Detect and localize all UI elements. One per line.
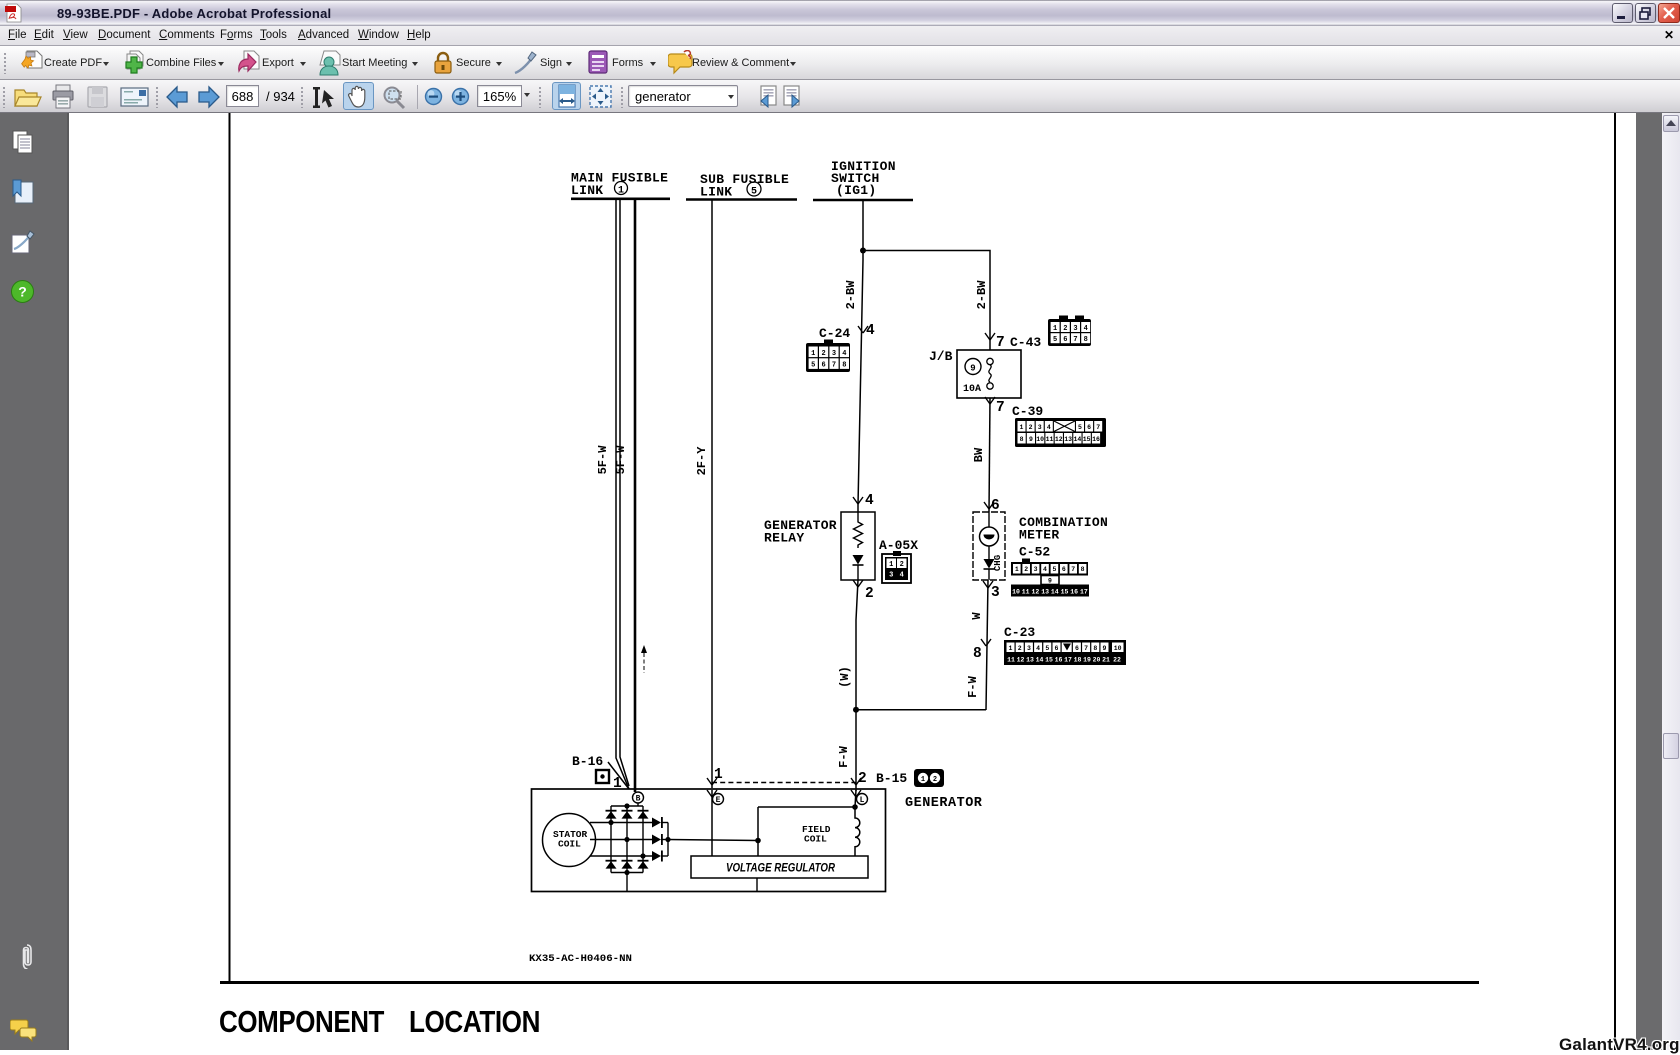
- svg-text:11: 11: [1022, 589, 1030, 596]
- bridge diodes bottom row: [606, 860, 649, 869]
- node ignition branch junction: [860, 248, 866, 254]
- diode inside relay: [853, 555, 864, 565]
- svg-text:17: 17: [1080, 589, 1088, 596]
- pin marker C-52 pin3: [983, 581, 993, 588]
- svg-text:3: 3: [832, 350, 836, 358]
- svg-text:5F-W: 5F-W: [614, 445, 628, 475]
- terminal L: [857, 794, 868, 806]
- svg-text:C-43: C-43: [1010, 335, 1041, 350]
- svg-text:RELAY: RELAY: [764, 531, 805, 546]
- svg-text:9: 9: [1029, 436, 1033, 443]
- menu bar: [0, 26, 1680, 46]
- svg-text:B-15: B-15: [876, 771, 907, 786]
- svg-text:C-24: C-24: [819, 326, 850, 341]
- svg-text:15: 15: [1061, 589, 1069, 596]
- svg-text:9: 9: [970, 364, 975, 374]
- svg-text:4: 4: [1084, 325, 1088, 333]
- svg-text:1: 1: [618, 186, 624, 197]
- svg-text:8: 8: [1084, 336, 1088, 344]
- svg-text:3: 3: [1073, 325, 1077, 333]
- svg-text:6: 6: [1055, 645, 1059, 652]
- wire 2F-Y from sub fusible link: [711, 200, 713, 788]
- connector C-39 pin block: [1015, 418, 1106, 447]
- svg-text:KX35-AC-H0406-NN: KX35-AC-H0406-NN: [529, 953, 632, 965]
- svg-text:(IG1): (IG1): [836, 183, 877, 198]
- svg-text:4: 4: [842, 350, 846, 358]
- svg-text:C-52: C-52: [1019, 545, 1050, 560]
- wire 5F-W (b) parallel conductor: [620, 200, 629, 786]
- svg-text:8: 8: [1020, 436, 1024, 443]
- svg-text:4: 4: [1036, 645, 1040, 652]
- wire 2F-Y inside generator to voltage regulator: [711, 790, 713, 856]
- svg-text:8: 8: [1081, 566, 1085, 573]
- bridge junction nodes: [608, 803, 670, 875]
- svg-text:LINK: LINK: [571, 183, 603, 198]
- svg-text:10A: 10A: [963, 384, 981, 395]
- svg-text:F-W: F-W: [966, 675, 980, 697]
- connector C-52 pin 9 cell: [1041, 576, 1059, 585]
- svg-text:18: 18: [1074, 657, 1082, 664]
- pin marker relay pin4: [853, 497, 863, 504]
- svg-text:7: 7: [832, 362, 836, 370]
- field coil winding: [855, 807, 860, 856]
- fuse 9 symbol: [965, 359, 981, 375]
- svg-text:13: 13: [1064, 436, 1072, 443]
- svg-text:LINK: LINK: [700, 185, 732, 200]
- svg-text:(W): (W): [838, 666, 852, 688]
- connector B-16 icon: [596, 770, 609, 783]
- svg-text:2F-Y: 2F-Y: [695, 446, 709, 476]
- svg-text:16: 16: [1092, 436, 1100, 443]
- svg-text:12: 12: [1031, 589, 1039, 596]
- pin marker C-43 pin7: [985, 333, 995, 340]
- node F-W junction: [853, 707, 859, 713]
- svg-text:L: L: [860, 796, 865, 805]
- pin marker C-24 pin4: [858, 326, 868, 333]
- power feed IGNITION SWITCH bus bar: [813, 199, 913, 202]
- svg-text:2: 2: [1024, 566, 1028, 573]
- svg-text:7: 7: [1071, 566, 1075, 573]
- toolbar row 2: [0, 80, 1680, 113]
- svg-text:2: 2: [1018, 645, 1022, 652]
- svg-text:5: 5: [811, 362, 815, 370]
- frame right border: [1614, 113, 1616, 1050]
- rectifier bridge: [590, 803, 758, 891]
- svg-text:A-05X: A-05X: [879, 538, 918, 553]
- combination meter box: [973, 512, 1005, 580]
- svg-text:1: 1: [1009, 645, 1013, 652]
- connector C-23 pin block: [1004, 640, 1126, 665]
- svg-text:1: 1: [921, 776, 925, 784]
- charge lamp symbol: [980, 527, 999, 546]
- svg-text:COIL: COIL: [804, 834, 827, 845]
- svg-text:6: 6: [1087, 424, 1091, 431]
- svg-text:15: 15: [1083, 436, 1091, 443]
- node field coil left: [755, 838, 761, 844]
- combination meter COMBINATION METER label: [1019, 515, 1108, 543]
- svg-text:J/B: J/B: [929, 349, 953, 364]
- fuse element: [987, 358, 993, 364]
- pin marker generator L terminal: [851, 790, 861, 797]
- ground stub below bridge: [626, 873, 628, 892]
- svg-text:9: 9: [1103, 645, 1107, 652]
- top bus: [611, 805, 643, 807]
- svg-text:2: 2: [1063, 325, 1067, 333]
- wire F-W junction down to generator L terminal: [855, 710, 857, 791]
- frame bottom border: [220, 981, 1479, 984]
- wire BW J/B to combination meter: [989, 398, 990, 512]
- svg-text:2: 2: [933, 776, 937, 784]
- voltage regulator box: [691, 856, 868, 878]
- svg-text:5: 5: [1078, 424, 1082, 431]
- junction block J/B: [929, 349, 1021, 398]
- connector C-52 pin block row 2: [1011, 585, 1089, 597]
- svg-text:E: E: [716, 796, 721, 805]
- svg-text:5: 5: [751, 187, 757, 198]
- svg-text:20: 20: [1093, 657, 1101, 664]
- toolbar row 1: [0, 46, 1680, 80]
- connector C-43 pin block: [1048, 316, 1091, 347]
- svg-text:3: 3: [1034, 566, 1038, 573]
- svg-text:COMPONENT: COMPONENT: [219, 1004, 384, 1039]
- svg-text:1: 1: [1020, 424, 1024, 431]
- svg-text:C-39: C-39: [1012, 404, 1043, 419]
- connector pass-through markers (arrowheads): [707, 326, 995, 797]
- svg-text:?: ?: [18, 284, 27, 300]
- svg-text:4: 4: [865, 493, 874, 509]
- label MAIN FUSIBLE LINK: [571, 171, 668, 199]
- svg-text:8: 8: [842, 362, 846, 370]
- svg-text:6: 6: [1063, 336, 1067, 344]
- svg-text:2: 2: [1029, 424, 1033, 431]
- wire branch to J/B: [863, 251, 990, 351]
- svg-text:CHG: CHG: [993, 555, 1003, 571]
- svg-text:5: 5: [1052, 566, 1056, 573]
- svg-text:7: 7: [1084, 645, 1088, 652]
- svg-text:4: 4: [1047, 424, 1051, 431]
- svg-text:16: 16: [1070, 589, 1078, 596]
- relay A-05X (generator relay) body: [841, 512, 875, 580]
- svg-text:8: 8: [1093, 645, 1097, 652]
- connector C-52 pin block row 1: [1011, 559, 1088, 576]
- svg-text:3: 3: [1038, 424, 1042, 431]
- svg-text:9: 9: [1048, 578, 1052, 585]
- svg-text:11: 11: [1046, 436, 1054, 443]
- power feed SUB FUSIBLE LINK bus bar: [686, 198, 797, 201]
- svg-text:5: 5: [1053, 336, 1057, 344]
- svg-text:5: 5: [1045, 645, 1049, 652]
- phase line 1: [590, 822, 652, 824]
- svg-text:6: 6: [1062, 566, 1066, 573]
- svg-text:17: 17: [1064, 657, 1072, 664]
- svg-text:21: 21: [1102, 657, 1110, 664]
- title bar: [0, 0, 1680, 26]
- svg-text:1: 1: [1015, 566, 1019, 573]
- svg-text:2: 2: [821, 350, 825, 358]
- bridge diodes top row: [606, 810, 649, 819]
- svg-text:4: 4: [866, 323, 875, 339]
- relay GENERATOR RELAY label: [764, 518, 837, 546]
- svg-text:6: 6: [1075, 645, 1079, 652]
- connector C-24 pin block: [806, 340, 850, 373]
- dashed harness line B-15 pin1 to pin2: [712, 782, 856, 784]
- diode inside meter: [984, 559, 995, 569]
- svg-text:10: 10: [1012, 589, 1020, 596]
- pin marker C-39 pin7: [985, 397, 995, 404]
- stub below voltage regulator: [756, 878, 758, 891]
- svg-text:7: 7: [996, 400, 1005, 416]
- pin marker C-52 pin6: [984, 502, 994, 509]
- svg-text:5F-W: 5F-W: [596, 445, 610, 475]
- phase line 3: [590, 855, 652, 857]
- power feed MAIN FUSIBLE LINK bus bar: [571, 198, 670, 201]
- svg-text:7: 7: [1096, 424, 1100, 431]
- svg-text:7: 7: [1073, 336, 1077, 344]
- svg-text:METER: METER: [1019, 528, 1060, 543]
- svg-text:3: 3: [889, 571, 893, 579]
- terminal B: [633, 792, 644, 804]
- connector B-15 icon: [914, 769, 944, 787]
- svg-text:2: 2: [858, 771, 867, 787]
- svg-text:14: 14: [1036, 657, 1044, 664]
- wire L terminal to field coil junction: [855, 790, 856, 807]
- svg-text:16: 16: [1055, 657, 1063, 664]
- phase line 2 / output to field: [590, 839, 652, 841]
- label IGNITION SWITCH (IG1): [831, 159, 896, 198]
- svg-text:1: 1: [811, 350, 815, 358]
- svg-text:3: 3: [991, 585, 1000, 601]
- svg-text:2: 2: [900, 561, 904, 569]
- stator coil circle: [543, 814, 596, 867]
- svg-text:6: 6: [821, 362, 825, 370]
- node field coil right: [852, 804, 858, 810]
- svg-text:2: 2: [865, 586, 874, 602]
- legs: [610, 806, 612, 873]
- wire W meter pin3 down to F-W junction: [986, 580, 988, 710]
- label SUB FUSIBLE LINK: [700, 172, 789, 200]
- generator outline box: [532, 789, 886, 892]
- svg-text:4: 4: [900, 571, 904, 579]
- pin marker B-15 pin1 upper: [707, 778, 717, 785]
- svg-text:W: W: [970, 612, 984, 620]
- svg-text:12: 12: [1017, 657, 1025, 664]
- pin marker B-15 pin2 upper: [851, 778, 861, 785]
- svg-text:19: 19: [1083, 657, 1091, 664]
- svg-text:2-BW: 2-BW: [975, 280, 989, 310]
- connector A-05X pin block: [882, 551, 911, 583]
- svg-text:2-BW: 2-BW: [844, 280, 858, 310]
- wire 5F-W (a) from main fusible link: [616, 200, 629, 789]
- svg-text:10: 10: [1114, 645, 1122, 652]
- svg-text:3: 3: [1027, 645, 1031, 652]
- wire F-W horizontal run: [856, 709, 986, 711]
- frame left border: [229, 113, 231, 982]
- wire 5F-W (thick) to generator B terminal: [634, 200, 637, 792]
- wire B-16 leader diagonal: [608, 762, 629, 789]
- B terminal stub: [637, 803, 639, 806]
- wire 2-BW from ignition switch: [858, 201, 863, 512]
- terminal E: [713, 794, 724, 806]
- svg-text:BW: BW: [972, 447, 986, 462]
- svg-text:F-W: F-W: [837, 745, 851, 767]
- svg-text:COIL: COIL: [558, 839, 581, 850]
- small direction arrow mid page: [641, 645, 647, 673]
- output diodes (three, pointing right): [652, 817, 663, 862]
- svg-text:GENERATOR: GENERATOR: [905, 796, 983, 811]
- pin marker relay pin2: [853, 580, 863, 587]
- svg-text:14: 14: [1073, 436, 1081, 443]
- svg-text:1: 1: [889, 561, 893, 569]
- svg-text:8: 8: [973, 646, 982, 662]
- svg-text:13: 13: [1026, 657, 1034, 664]
- output bus vertical: [667, 823, 669, 857]
- svg-text:1: 1: [1053, 325, 1057, 333]
- svg-text:B: B: [636, 795, 641, 804]
- svg-text:LOCATION: LOCATION: [409, 1004, 540, 1039]
- bottom bus: [611, 872, 643, 874]
- svg-text:10: 10: [1036, 436, 1044, 443]
- svg-text:13: 13: [1041, 589, 1049, 596]
- symbol circled 1 fusible link number: [615, 182, 628, 197]
- svg-text:C-23: C-23: [1004, 625, 1035, 640]
- svg-text:1: 1: [714, 767, 723, 783]
- svg-text:VOLTAGE REGULATOR: VOLTAGE REGULATOR: [726, 861, 835, 875]
- pin marker generator E terminal: [707, 790, 717, 797]
- wire (W) relay pin2 down to junction: [856, 580, 858, 710]
- svg-text:11: 11: [1007, 657, 1015, 664]
- field coil box: [758, 807, 860, 856]
- svg-text:22: 22: [1113, 657, 1121, 664]
- svg-text:7: 7: [996, 335, 1005, 351]
- svg-text:B-16: B-16: [572, 754, 603, 769]
- svg-text:14: 14: [1051, 589, 1059, 596]
- resistor element inside relay: [854, 512, 863, 548]
- svg-text:4: 4: [1043, 566, 1047, 573]
- symbol circled 5 fusible link number: [747, 182, 761, 198]
- pin marker C-23 pin8: [981, 639, 991, 646]
- svg-text:12: 12: [1055, 436, 1063, 443]
- svg-text:15: 15: [1045, 657, 1053, 664]
